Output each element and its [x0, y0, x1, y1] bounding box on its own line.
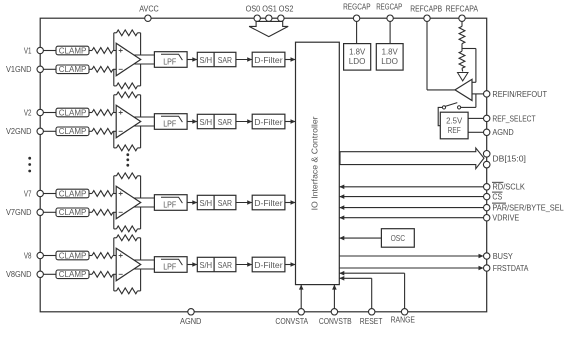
pin V2 [37, 109, 43, 115]
regulator 1.8V LDO first [344, 44, 371, 71]
wire REGCAP to first LDO [356, 21, 358, 43]
pin FRSTDATA [484, 265, 490, 271]
svg-text:CONVSTA: CONVSTA [275, 317, 308, 326]
svg-text:CONVSTB: CONVSTB [319, 317, 352, 326]
clamp CH1 positive [56, 46, 89, 55]
svg-text:REF: REF [448, 126, 461, 135]
switch REF_SELECT contact right [458, 106, 461, 109]
resistor CH1 feedback top [113, 33, 115, 51]
pin OS2 [278, 15, 284, 21]
resistor CH7 input negative [89, 211, 92, 213]
clamp CH8 negative [56, 270, 89, 279]
wire V2GND to clamp [43, 130, 56, 132]
pin DB upper [483, 151, 490, 158]
switch REF_SELECT lever [445, 103, 458, 107]
wire switch to 2.5V REF box [438, 107, 442, 125]
wire SAR to D-Filter CH1 [236, 59, 252, 61]
pin CONVSTA [298, 309, 304, 315]
pin REFCAPB [424, 15, 430, 21]
wire CH7 PGA output trace [133, 197, 154, 199]
oversampling select block arrow to D-Filters [249, 21, 288, 36]
svg-text:CLAMP: CLAMP [59, 127, 87, 136]
svg-text:BUSY: BUSY [493, 252, 514, 261]
wire D-Filter CH1 to IO interface [285, 59, 296, 61]
wire LPF to S/H CH8 [187, 264, 197, 266]
low-pass filter LPF CH1 [154, 52, 187, 68]
svg-text:AGND: AGND [492, 128, 513, 137]
S/H and SAR ADC CH1 [197, 52, 236, 66]
wire RESET to IO interface [371, 278, 373, 308]
resistor CH8 input positive [89, 255, 92, 257]
S/H and SAR ADC CH2 [197, 114, 236, 128]
pin REFIN/REFOUT [484, 91, 490, 97]
pin OS1 [266, 15, 272, 21]
svg-text:2.5V: 2.5V [446, 117, 463, 126]
wire V7 to clamp [43, 193, 56, 195]
clamp CH2 negative [56, 127, 89, 136]
svg-text:DB[15:0]: DB[15:0] [492, 154, 526, 163]
svg-text:SAR: SAR [218, 199, 232, 208]
wire PAR/SER/BYTE_SEL to IO interface [339, 207, 483, 209]
svg-text:RESET: RESET [360, 317, 383, 326]
digital filter D-Filter CH1 [252, 52, 285, 67]
pin RANGE [401, 309, 407, 315]
clamp CH2 positive [56, 108, 89, 117]
regulator 1.8V LDO second [376, 44, 403, 71]
pin V8GND [37, 271, 43, 277]
pin BUSY [484, 253, 490, 259]
svg-text:RD/SCLK: RD/SCLK [492, 183, 525, 192]
wire D-Filter CH2 to IO interface [285, 121, 296, 123]
clamp CH7 positive [56, 189, 89, 198]
resistor CH2 feedback bottom [113, 131, 115, 148]
pin RD/SCLK [484, 184, 490, 190]
digital filter D-Filter CH8 [252, 257, 285, 272]
resistor CH8 feedback bottom [113, 274, 115, 291]
resistor CH1 input positive [89, 50, 92, 52]
pin V1GND [37, 66, 43, 72]
wire RD/SCLK to IO interface [339, 186, 483, 188]
S/H and SAR ADC CH7 [197, 195, 236, 209]
wire CH2 PGA output trace [133, 116, 154, 118]
outer boundary frame of ADC block [40, 18, 487, 312]
svg-text:RANGE: RANGE [391, 316, 416, 325]
resistor CH1 input negative [89, 68, 92, 70]
svg-text:LPF: LPF [163, 263, 176, 272]
svg-text:REFIN/REFOUT: REFIN/REFOUT [492, 90, 547, 99]
open arrowhead into reference buffer [458, 73, 469, 81]
parallel data bus block arrow DB[15:0] [340, 148, 484, 169]
svg-text:1.8V: 1.8V [382, 47, 399, 56]
wire LPF to S/H CH2 [187, 121, 197, 123]
pin CS [484, 193, 490, 199]
svg-text:REFCAPA: REFCAPA [446, 4, 479, 13]
wire CONVSTB to IO interface [333, 285, 335, 309]
resistor CH2 feedback top [113, 95, 115, 113]
resistor CH2 input negative [89, 130, 92, 132]
wire REFCAPB to reference buffer output [426, 21, 428, 90]
resistor CH7 input positive [89, 193, 92, 195]
svg-text:CLAMP: CLAMP [59, 65, 87, 74]
reference source 2.5V REF [440, 112, 468, 139]
resistor CH8 feedback top [113, 238, 115, 256]
switch REF_SELECT contact left [442, 106, 445, 109]
wire LPF to S/H CH1 [187, 59, 197, 61]
wire RANGE to IO interface [404, 273, 406, 308]
pin AGND bottom [188, 309, 194, 315]
wire divider tap to buffer feedback [462, 48, 476, 50]
svg-text:VDRIVE: VDRIVE [492, 214, 519, 223]
wire V2 to clamp [43, 112, 56, 114]
wire V8GND to clamp [43, 273, 56, 275]
wire D-Filter CH7 to IO interface [285, 202, 296, 204]
svg-text:S/H: S/H [200, 56, 213, 65]
svg-text:V8GND: V8GND [6, 270, 32, 279]
wire REF box to REF_SELECT [468, 117, 483, 119]
pin V8 [37, 252, 43, 258]
low-pass filter LPF CH8 [154, 257, 187, 273]
svg-text:D-Filter: D-Filter [254, 56, 283, 65]
svg-text:CLAMP: CLAMP [59, 46, 87, 55]
pin AVCC [145, 15, 151, 21]
wire OSC to IO interface [339, 237, 381, 239]
svg-text:V7: V7 [24, 189, 32, 198]
pin PAR/SER/BYTE_SEL [484, 204, 490, 210]
svg-text:OS0 OS1 OS2: OS0 OS1 OS2 [246, 4, 294, 13]
svg-text:S/H: S/H [200, 199, 213, 208]
svg-text:CS: CS [492, 193, 502, 202]
wire buffer output to REFIN/REFOUT [472, 93, 484, 95]
svg-text:D-Filter: D-Filter [254, 199, 283, 208]
wire V7GND to clamp [43, 211, 56, 213]
svg-text:REFCAPB: REFCAPB [410, 4, 442, 13]
pin CONVSTB [331, 309, 337, 315]
svg-text:V8: V8 [24, 251, 32, 260]
svg-text:CLAMP: CLAMP [59, 108, 87, 117]
pin RESET [369, 309, 375, 315]
svg-text:S/H: S/H [200, 261, 213, 270]
wire CS to IO interface [339, 196, 483, 198]
wire REF box to AGND pin [468, 131, 483, 133]
svg-text:PAR/SER/BYTE_SEL: PAR/SER/BYTE_SEL [492, 204, 564, 213]
svg-text:LPF: LPF [163, 120, 176, 129]
pin REFCAPA [459, 15, 465, 21]
pin REF_SELECT [484, 115, 490, 121]
svg-text:REGCAP: REGCAP [376, 3, 403, 12]
pin V7GND [37, 209, 43, 215]
svg-text:S/H: S/H [200, 118, 213, 127]
wire CONVSTA to IO interface [300, 285, 302, 309]
op-amp reference buffer [455, 79, 472, 100]
clamp CH8 positive [56, 251, 89, 260]
pin DB lower [483, 161, 490, 168]
svg-text:SAR: SAR [218, 56, 232, 65]
digital filter D-Filter CH7 [252, 195, 285, 210]
svg-text:IO Interface & Controller: IO Interface & Controller [310, 116, 319, 210]
svg-text:V1GND: V1GND [6, 65, 32, 74]
clamp CH7 negative [56, 208, 89, 217]
svg-text:V2: V2 [24, 108, 32, 117]
wire SAR to D-Filter CH7 [236, 202, 252, 204]
wire LPF to S/H CH7 [187, 202, 197, 204]
svg-text:D-Filter: D-Filter [254, 261, 283, 270]
low-pass filter LPF CH2 [154, 114, 187, 130]
wire IO interface to BUSY [339, 255, 483, 257]
IO Interface & Controller block [296, 42, 340, 284]
wire SAR to D-Filter CH8 [236, 264, 252, 266]
pin V1 [37, 47, 43, 53]
pin V2GND [37, 128, 43, 134]
svg-text:OSC: OSC [391, 234, 406, 243]
svg-text:CLAMP: CLAMP [59, 270, 87, 279]
resistor CH2 input positive [89, 112, 92, 114]
svg-text:AVCC: AVCC [139, 4, 159, 13]
ellipsis dots input pins V3-V6 [28, 157, 31, 160]
svg-text:SAR: SAR [218, 118, 232, 127]
pin REGCAP second [387, 15, 393, 21]
wire REFIN node down to switch [475, 94, 477, 108]
svg-text:LPF: LPF [163, 201, 176, 210]
clamp CH1 negative [56, 65, 89, 74]
svg-text:REGCAP: REGCAP [343, 3, 371, 12]
svg-text:CLAMP: CLAMP [59, 208, 87, 217]
resistor CH7 feedback top [113, 176, 115, 194]
svg-text:1.8V: 1.8V [349, 47, 366, 56]
svg-text:AGND: AGND [180, 317, 201, 326]
wire divider into buffer [461, 68, 464, 71]
svg-text:SAR: SAR [218, 261, 232, 270]
wire D-Filter CH8 to IO interface [285, 264, 296, 266]
resistor CH1 feedback bottom [113, 69, 115, 86]
wire IO interface to FRSTDATA [339, 267, 483, 269]
wire divider middle [461, 44, 463, 52]
pin OS0 [254, 15, 260, 21]
wire REGCAP to second LDO [389, 21, 391, 43]
digital filter D-Filter CH2 [252, 114, 285, 129]
resistor CH8 input negative [89, 273, 92, 275]
wire V1 to clamp [43, 50, 56, 52]
svg-text:CLAMP: CLAMP [59, 189, 87, 198]
svg-text:LDO: LDO [349, 57, 366, 66]
svg-text:V7GND: V7GND [6, 208, 32, 217]
pin VDRIVE [484, 215, 490, 221]
resistor reference divider lower [459, 51, 465, 68]
wire REFCAPA to divider [461, 21, 463, 26]
pin REGCAP first [353, 15, 359, 21]
svg-text:REF_SELECT: REF_SELECT [492, 114, 535, 123]
resistor reference divider upper [459, 26, 465, 43]
pin V7 [37, 190, 43, 196]
wire CH8 PGA output trace [133, 259, 154, 261]
wire CH1 PGA output trace [133, 54, 154, 56]
op-amp PGA7 [116, 186, 141, 218]
wire V8 to clamp [43, 255, 56, 257]
wire V1GND to clamp [43, 68, 56, 70]
svg-text:LDO: LDO [381, 57, 398, 66]
op-amp PGA8 [116, 248, 141, 280]
svg-text:D-Filter: D-Filter [254, 118, 283, 127]
svg-text:FRSTDATA: FRSTDATA [493, 264, 529, 273]
pin AGND right [484, 129, 490, 135]
wire SAR to D-Filter CH2 [236, 121, 252, 123]
low-pass filter LPF CH7 [154, 195, 187, 211]
svg-text:CLAMP: CLAMP [59, 251, 87, 260]
op-amp PGA2 [116, 105, 141, 137]
svg-text:V1: V1 [24, 46, 32, 55]
ellipsis dots channels 3-6 [126, 153, 129, 156]
svg-text:V2GND: V2GND [6, 127, 32, 136]
op-amp PGA1 [116, 43, 141, 75]
svg-text:LPF: LPF [163, 58, 176, 67]
resistor CH7 feedback bottom [113, 212, 115, 229]
oscillator OSC block [381, 229, 414, 248]
S/H and SAR ADC CH8 [197, 257, 236, 271]
wire VDRIVE to IO interface [339, 217, 483, 219]
